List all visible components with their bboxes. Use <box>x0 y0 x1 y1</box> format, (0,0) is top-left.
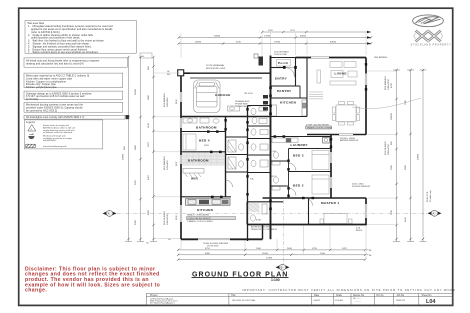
notes box 5 <box>24 102 123 112</box>
wall kitchen bottom <box>271 116 308 118</box>
window W08 left wall <box>180 205 182 222</box>
svg-text:BED 4: BED 4 <box>199 139 210 143</box>
svg-text:3080W: 3080W <box>391 112 393 120</box>
svg-text:2140: 2140 <box>148 122 150 128</box>
svg-text:drawing and calculation for): drawing and calculation for) and also b)… <box>26 63 84 66</box>
wc top fixtures <box>251 107 267 124</box>
svg-text:Revise No: Revise No <box>353 294 365 297</box>
corridor wall <box>288 149 290 199</box>
top dimension ticks <box>178 31 373 45</box>
svg-text:W06 AWNING: W06 AWNING <box>163 93 166 107</box>
garage meter texts <box>235 93 253 108</box>
top dimension labels <box>195 30 337 43</box>
svg-text:S.A.: S.A. <box>250 178 254 181</box>
svg-text:———: ——— <box>354 301 362 303</box>
svg-text:REINFORCED CONCRETE: REINFORCED CONCRETE <box>251 229 278 231</box>
title: GROUND FLOOR PLAN <box>192 271 289 282</box>
svg-text:1:100: 1:100 <box>271 278 280 282</box>
bed 2 bed <box>312 175 329 194</box>
svg-text:BED 2: BED 2 <box>293 183 304 187</box>
svg-text:4230: 4230 <box>391 82 393 88</box>
svg-text:Project: Project <box>150 294 158 297</box>
svg-text:Scale: Scale <box>336 294 343 297</box>
top wall right unit <box>296 57 367 59</box>
svg-text:L04: L04 <box>426 299 436 305</box>
door arcs <box>226 163 313 206</box>
svg-text:BRICKWORK OVER: BRICKWORK OVER <box>206 68 226 70</box>
svg-text:5140 SETBACK: 5140 SETBACK <box>274 50 290 53</box>
svg-text:11940: 11940 <box>262 253 269 255</box>
svg-text:6580: 6580 <box>405 164 407 170</box>
section marker bottom <box>276 264 290 270</box>
sliding door annotation <box>203 242 229 248</box>
section marker right <box>428 210 442 216</box>
svg-text:2400x1500: 2400x1500 <box>388 78 390 90</box>
svg-text:Job No: Job No <box>397 294 405 297</box>
svg-text:W02 SLIDING: W02 SLIDING <box>385 141 387 155</box>
brickwork note above garage <box>206 64 226 70</box>
svg-text:BRICK: BRICK <box>356 230 363 232</box>
svg-text:A: A <box>433 212 435 216</box>
right dimension lines <box>393 70 427 242</box>
master top wall <box>263 197 367 199</box>
svg-text:PORCH LINE: PORCH LINE <box>274 54 287 56</box>
leader text rotated near curve <box>427 190 432 202</box>
svg-text:Title:: Title: <box>231 294 236 297</box>
bottom wall meals <box>181 238 263 240</box>
svg-text:5370: 5370 <box>268 30 274 32</box>
svg-text:Drn by: Drn by <box>377 294 385 297</box>
logo knot emblem <box>416 31 441 42</box>
laundry bench <box>272 138 330 144</box>
svg-text:L.WC: L.WC <box>271 151 277 153</box>
svg-text:5880: 5880 <box>135 144 137 150</box>
svg-text:4080: 4080 <box>205 253 211 255</box>
master bed <box>320 214 352 224</box>
garage top wall with door opening <box>180 72 190 74</box>
svg-text:4470: 4470 <box>148 174 150 180</box>
dining window bottom <box>339 133 353 135</box>
svg-text:MEALS / LIVING AREA: MEALS / LIVING AREA <box>187 214 209 217</box>
svg-text:W08 SLIDING: W08 SLIDING <box>164 211 166 225</box>
svg-text:BATHROOM: BATHROOM <box>188 158 209 162</box>
svg-text:3475: 3475 <box>342 248 348 250</box>
window W07 left wall <box>180 155 182 164</box>
svg-text:with AS1668.2: with AS1668.2 <box>43 139 57 142</box>
top dimension line 1 <box>179 32 372 44</box>
svg-text:17380: 17380 <box>266 258 273 260</box>
svg-text:DOOR UNIT: DOOR UNIT <box>207 245 219 247</box>
svg-text:25880: 25880 <box>123 153 125 160</box>
wall extension lines <box>154 33 395 259</box>
notes box 4 <box>24 91 123 101</box>
wall below bed4 <box>181 151 226 153</box>
bottom RL markers <box>367 250 373 257</box>
dining bottom wall <box>307 134 366 136</box>
svg-text:11980: 11980 <box>135 88 137 95</box>
svg-text:WC 2: WC 2 <box>271 176 277 178</box>
right dimension ticks <box>395 69 424 240</box>
svg-text:All downlights must comply wit: All downlights must comply with AS/NZS 3… <box>26 116 85 119</box>
svg-text:———: ——— <box>354 298 362 300</box>
svg-text:SLIDING WINDOW: SLIDING WINDOW <box>352 186 370 188</box>
svg-text:84830: 84830 <box>300 36 307 38</box>
svg-text:W06: W06 <box>176 99 178 104</box>
svg-text:1200x850: 1200x850 <box>167 160 169 170</box>
svg-text:5170B VERANDAH: 5170B VERANDAH <box>206 64 225 67</box>
svg-text:LIVING: LIVING <box>335 72 348 76</box>
texts under ensuite <box>251 226 278 232</box>
living furniture sofa <box>317 62 357 86</box>
svg-text:Kitchen: polybutylene pipe: Kitchen: polybutylene pipe <box>26 86 57 89</box>
svg-text:Date: Date <box>314 294 320 297</box>
wet cell divider walls <box>271 160 289 162</box>
right exterior wall upper <box>365 58 367 135</box>
party wall between units <box>270 56 272 240</box>
svg-text:040321: 040321 <box>314 300 322 302</box>
right dimension labels (rotated) <box>384 76 420 222</box>
svg-text:17830: 17830 <box>274 42 281 44</box>
svg-text:be covered by NCC AS3.3): be covered by NCC AS3.3) <box>26 110 57 113</box>
notes box 2 <box>24 58 127 67</box>
svg-text:WIR: WIR <box>191 177 198 181</box>
meter boxes on party wall <box>263 95 268 111</box>
left sub-column cells <box>226 136 248 138</box>
meals sliding door <box>198 238 230 240</box>
step wall to ensuite <box>262 225 264 240</box>
left dimension ticks <box>127 56 154 240</box>
svg-text:28580: 28580 <box>214 36 221 38</box>
svg-text:2400x2100: 2400x2100 <box>167 213 169 225</box>
svg-text:GARAGE: GARAGE <box>215 93 231 97</box>
disclaimer red text <box>25 266 160 293</box>
wc mid cells <box>248 138 271 140</box>
svg-text:Sheet No: Sheet No <box>422 294 433 297</box>
garage bottom wall <box>181 116 271 118</box>
svg-text:1800x1350: 1800x1350 <box>388 143 390 155</box>
living window right <box>365 74 367 86</box>
svg-text:W01 AWNING: W01 AWNING <box>384 76 387 90</box>
left dimension labels (rotated) <box>123 66 179 225</box>
left dimension lines <box>129 57 154 242</box>
bottom dimension ticks <box>177 249 366 261</box>
svg-text:Internal load-bearing wall: Internal load-bearing wall <box>43 145 67 148</box>
svg-text:2740H CEILING HEIGHT: 2740H CEILING HEIGHT <box>188 218 212 220</box>
top GL marker <box>140 53 152 58</box>
svg-text:TIMBER LOOK FLOORING: TIMBER LOOK FLOORING <box>307 127 333 129</box>
legend mech vent icon <box>28 136 34 139</box>
leader curve to right dims <box>352 98 421 109</box>
svg-text:E.WC: E.WC <box>256 220 262 222</box>
kitchen bench right unit <box>272 100 307 116</box>
svg-text:7540: 7540 <box>320 253 326 255</box>
svg-text:by 6 l/min): by 6 l/min) <box>26 98 38 101</box>
svg-text:KITCHEN: KITCHEN <box>280 100 297 104</box>
bed3 east window <box>330 152 332 163</box>
svg-text:GROUND FLOOR PLAN: GROUND FLOOR PLAN <box>232 299 255 302</box>
svg-text:TEL BOX: TEL BOX <box>244 93 253 95</box>
legend smoke alarm triangle <box>28 125 36 132</box>
title block table <box>146 293 452 305</box>
wall between units middle column <box>225 117 227 198</box>
meals annotation <box>187 214 236 223</box>
svg-text:2100H SLIDING STACKER: 2100H SLIDING STACKER <box>203 242 229 245</box>
svg-text:4180: 4180 <box>405 216 407 222</box>
top dimension arrows right <box>367 31 371 45</box>
pantry walls <box>271 85 301 87</box>
svg-text:B: B <box>281 266 283 270</box>
window bathroom1 left wall <box>180 118 182 128</box>
svg-text:1940: 1940 <box>256 248 262 250</box>
svg-text:STOCKLAND PROPERTY: STOCKLAND PROPERTY <box>411 42 452 46</box>
wall bed3/bed2 <box>289 171 332 173</box>
wc top cell walls <box>248 105 271 107</box>
svg-text:8710: 8710 <box>205 248 211 250</box>
svg-text:AWNING WINDOW: AWNING WINDOW <box>340 139 358 142</box>
wet rooms column left of beds <box>272 152 280 190</box>
bathroom 2 tiled floor <box>182 153 225 166</box>
kitchen annotation boxed <box>306 124 333 129</box>
master bottom wall <box>309 224 367 226</box>
svg-text:POWER METER: POWER METER <box>235 106 251 108</box>
corner note under master <box>356 228 363 233</box>
svg-text:Legend: Legend <box>26 121 35 124</box>
svg-text:3580: 3580 <box>391 164 393 170</box>
living window top <box>311 56 329 58</box>
laundry wall top <box>271 136 332 138</box>
svg-text:BED 3: BED 3 <box>293 153 304 157</box>
svg-text:1:100 A3: 1:100 A3 <box>335 299 344 302</box>
wall laundry/bed3 <box>289 148 332 150</box>
svg-text:2640: 2640 <box>287 248 293 250</box>
svg-text:W07: W07 <box>176 161 178 166</box>
svg-text:50 with only: 50 with only <box>429 190 432 202</box>
bottom dimension lines <box>178 250 365 260</box>
svg-text:5790: 5790 <box>312 248 318 250</box>
notes box 1: wet area notes <box>25 21 136 55</box>
porch <box>254 54 296 87</box>
svg-text:17830: 17830 <box>264 36 271 38</box>
legend box <box>24 120 103 149</box>
logo ellipse swoosh <box>413 15 444 27</box>
svg-text:3130: 3130 <box>236 42 242 44</box>
svg-text:4280: 4280 <box>148 209 150 215</box>
exterior wall left <box>180 73 182 239</box>
wall above kitchen <box>181 196 231 198</box>
car in garage <box>194 80 221 113</box>
svg-text:KITCHEN: KITCHEN <box>197 208 214 212</box>
svg-text:3470: 3470 <box>204 145 210 147</box>
middle strip wall x=247.5 <box>247 106 249 242</box>
entry door arc <box>285 68 295 78</box>
bed 3 bed <box>312 151 329 170</box>
svg-text:217 Wairoi Road (August ): 217 Wairoi Road (August ) <box>150 302 175 305</box>
master right wall <box>365 198 367 225</box>
legend load-bearing wall swatch <box>26 144 36 147</box>
bottom dimension labels <box>205 248 348 260</box>
pantry shelves <box>309 92 323 99</box>
master window right <box>365 204 367 218</box>
bathroom 1 fixtures <box>183 118 219 123</box>
svg-text:2780: 2780 <box>391 209 393 215</box>
left GL bottom label <box>146 239 172 245</box>
wall below bathroom1 <box>181 131 226 133</box>
svg-text:5580: 5580 <box>135 219 137 225</box>
svg-text:1800x850: 1800x850 <box>167 97 169 107</box>
svg-text:an intimate contact an all-rou: an intimate contact an all-round. <box>43 131 73 134</box>
svg-text:W01 AWNING: W01 AWNING <box>374 56 388 59</box>
svg-text:26580: 26580 <box>195 42 202 44</box>
svg-text:PANTRY: PANTRY <box>277 89 292 93</box>
east wall bed3/bed2 <box>330 135 332 199</box>
svg-text:MASTER 1: MASTER 1 <box>321 201 339 205</box>
svg-text:T9341978: T9341978 <box>396 300 406 302</box>
svg-text:A: A <box>108 212 110 216</box>
svg-text:3470: 3470 <box>135 179 137 185</box>
svg-text:ALFRESCO SLIDING: ALFRESCO SLIDING <box>251 226 271 229</box>
door jamb blocks <box>207 63 367 210</box>
setback note above porch <box>274 50 290 56</box>
svg-text:ENTRY: ENTRY <box>275 77 288 81</box>
bed4 bed <box>183 134 196 150</box>
kitchen bench left unit <box>186 199 231 205</box>
svg-text:LAUNDRY: LAUNDRY <box>291 143 309 147</box>
wir robes <box>183 169 204 178</box>
section dashed line vertical <box>282 200 284 264</box>
notes box 3 <box>24 73 123 89</box>
section dashed line horizontal <box>117 212 427 214</box>
svg-text:TIMBER LOOK FLOORING: TIMBER LOOK FLOORING <box>187 221 213 223</box>
svg-text:W08: W08 <box>176 215 178 220</box>
svg-text:IMPORTANT: CONTRACTOR MUST VER: IMPORTANT: CONTRACTOR MUST VERIFY ALL DI… <box>242 288 456 292</box>
svg-text:84830: 84830 <box>330 42 337 44</box>
svg-text:7. Safety restraint apply to: 7. Safety restraint apply to wet area wi… <box>28 51 99 54</box>
svg-text:BATHROOM: BATHROOM <box>196 126 217 130</box>
left dimension bottom bars <box>125 241 157 243</box>
svg-text:change.: change. <box>25 288 47 294</box>
svg-text:25880: 25880 <box>418 153 420 160</box>
master west wall <box>308 198 310 225</box>
section marker left <box>103 211 117 217</box>
svg-text:7170: 7170 <box>290 30 296 32</box>
svg-text:5140 SITE: 5140 SITE <box>427 191 429 202</box>
dining table <box>333 102 360 126</box>
living divider wall <box>306 58 308 117</box>
svg-text:5980: 5980 <box>148 94 150 100</box>
window W06 left wall <box>180 92 182 102</box>
wall below pantry <box>271 97 308 99</box>
svg-text:3070: 3070 <box>148 141 150 147</box>
annotation texts right side <box>340 138 370 188</box>
svg-text:Porch: Porch <box>278 61 289 65</box>
svg-text:W07 AWNING: W07 AWNING <box>163 156 166 170</box>
notes box 6 <box>24 115 129 119</box>
porch mat outline <box>277 60 291 67</box>
ensuite block bottom <box>247 202 309 225</box>
